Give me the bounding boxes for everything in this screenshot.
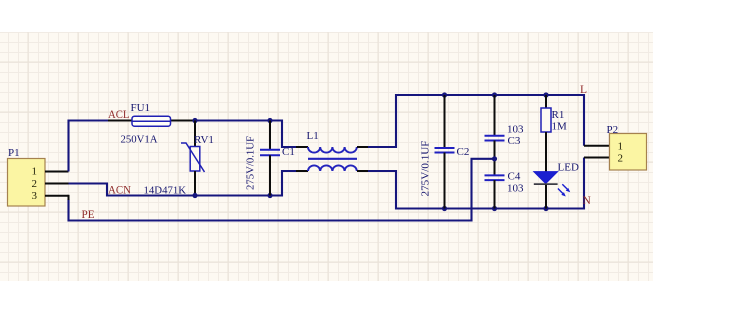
node L/C3 junction <box>492 92 497 97</box>
svg-text:C4: C4 <box>508 171 521 183</box>
capacitor C3 <box>485 95 525 159</box>
svg-text:P2: P2 <box>607 124 619 136</box>
wire net ACN: P1.2 right, down, to L1 bottom <box>69 171 298 196</box>
node ACL/C1 junction <box>267 118 272 123</box>
svg-text:LED: LED <box>558 162 579 174</box>
node C3/C4 midpoint junction <box>492 156 497 161</box>
sheet background <box>0 32 653 281</box>
wire net PE: P1.3 down, right, up to C3/C4 midpoint <box>69 159 495 221</box>
FU1 left pin <box>108 120 132 122</box>
varistor RV1 <box>144 121 214 197</box>
svg-text:P1: P1 <box>8 147 20 159</box>
svg-text:103: 103 <box>507 124 524 136</box>
svg-text:3: 3 <box>32 190 38 202</box>
P1 pin 1 <box>45 171 69 173</box>
svg-text:275V/0.1UF: 275V/0.1UF <box>245 136 257 190</box>
node ACL/RV1 junction <box>192 118 197 123</box>
P1 pin 3 corner stub <box>68 195 70 200</box>
L1 bottom-right pin <box>357 170 369 172</box>
FU1 right pin <box>171 120 196 122</box>
L1 bottom-left pin <box>296 170 308 172</box>
capacitor C4 <box>485 159 525 209</box>
svg-text:103: 103 <box>507 182 524 194</box>
L1 top-left pin <box>296 146 308 148</box>
node ACN/C1 junction <box>267 193 272 198</box>
svg-text:L1: L1 <box>307 130 319 142</box>
node ACN/RV1 junction <box>192 193 197 198</box>
P2 pin 2 <box>584 157 610 159</box>
capacitor C1 <box>245 121 295 196</box>
svg-text:FU1: FU1 <box>131 102 151 114</box>
svg-text:C2: C2 <box>457 146 470 158</box>
wire net L: L1 top to rail and P2.1 <box>368 95 584 147</box>
wire net N: L1 bottom to rail and P2.2 <box>368 158 584 209</box>
P1 pin 3 <box>45 195 69 197</box>
fuse FU1 <box>121 102 171 145</box>
LED D1 <box>534 162 579 209</box>
svg-text:250V1A: 250V1A <box>121 133 158 145</box>
L1 top-right pin <box>357 146 369 148</box>
svg-text:RV1: RV1 <box>194 134 214 146</box>
resistor R1 <box>541 95 567 173</box>
P1 pin 2 <box>45 183 69 185</box>
svg-text:1: 1 <box>618 141 624 153</box>
svg-text:PE: PE <box>82 209 95 221</box>
svg-text:ACL: ACL <box>108 109 130 121</box>
P2 pin 1 <box>584 145 610 147</box>
wire net ACL: P1.1 up and right to fuse <box>69 121 110 172</box>
node L/C2 junction <box>442 92 447 97</box>
svg-text:1: 1 <box>32 166 38 178</box>
svg-text:N: N <box>583 195 592 207</box>
node N/LED junction <box>543 206 548 211</box>
connector P1 <box>8 147 46 206</box>
svg-text:R1: R1 <box>552 109 565 121</box>
node N/C2 junction <box>442 206 447 211</box>
node N/C4 junction <box>492 206 497 211</box>
node L/R1 junction <box>543 92 548 97</box>
svg-text:L: L <box>580 84 587 96</box>
svg-text:2: 2 <box>618 153 624 165</box>
svg-text:C1: C1 <box>282 146 295 158</box>
wire net ACL: junction to C1 top, down to L1 top <box>195 121 297 148</box>
svg-text:ACN: ACN <box>108 184 132 196</box>
svg-text:1M: 1M <box>552 120 568 132</box>
svg-text:275V/0.1UF: 275V/0.1UF <box>420 141 432 197</box>
svg-text:C3: C3 <box>508 135 521 147</box>
inductor L1 (common-mode choke) <box>307 130 358 171</box>
capacitor C2 <box>420 95 470 209</box>
svg-text:2: 2 <box>32 178 38 190</box>
connector P2 <box>607 124 647 170</box>
